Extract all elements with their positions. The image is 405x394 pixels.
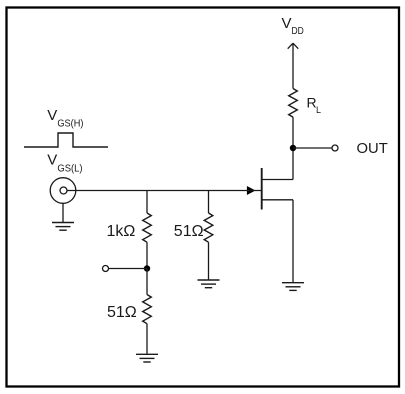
wire node A to 51 lower bbox=[146, 269, 148, 295]
svg-text:GS(H): GS(H) bbox=[57, 117, 83, 129]
wire node to OUT terminal bbox=[293, 147, 332, 149]
wire 51 upper to ground bbox=[208, 242, 210, 280]
wire gate bus bbox=[67, 190, 262, 192]
resistor R3 51 lower bbox=[143, 295, 152, 324]
svg-text:OUT: OUT bbox=[357, 141, 388, 157]
ground (generator) bbox=[52, 223, 74, 231]
transistor Q1 bbox=[247, 168, 293, 210]
svg-text:L: L bbox=[316, 105, 321, 115]
wire 51 lower to ground bbox=[146, 324, 148, 355]
resistor RL bbox=[289, 89, 298, 118]
label VDD bbox=[282, 15, 305, 37]
wire junction to 1k resistor bbox=[146, 191, 148, 214]
svg-text:GS(L): GS(L) bbox=[57, 163, 82, 175]
wire 1k to node A bbox=[146, 242, 148, 268]
label VGS(H) bbox=[47, 107, 83, 129]
wire VDD to RL bbox=[292, 43, 294, 88]
wire RL to drain bbox=[292, 117, 294, 179]
label RL bbox=[307, 94, 322, 115]
node A junction bbox=[144, 265, 150, 271]
resistor R2 1k bbox=[143, 213, 152, 242]
svg-text:1kΩ: 1kΩ bbox=[107, 223, 136, 240]
ground (51 upper) bbox=[198, 280, 220, 288]
wire source to ground bbox=[292, 200, 294, 283]
svg-text:V: V bbox=[47, 151, 57, 168]
resistor R4 51 upper bbox=[204, 213, 213, 242]
ground (transistor source) bbox=[282, 283, 304, 291]
svg-text:DD: DD bbox=[292, 25, 305, 37]
wire terminal to node A bbox=[109, 268, 148, 270]
ground (51 lower) bbox=[136, 354, 158, 362]
waveform pulse bbox=[24, 133, 108, 147]
svg-text:V: V bbox=[47, 107, 57, 124]
wire generator to ground bbox=[62, 203, 64, 222]
source generator (BNC) bbox=[50, 178, 76, 204]
node drain/OUT junction bbox=[290, 145, 296, 151]
svg-text:51Ω: 51Ω bbox=[174, 223, 204, 240]
power VDD arrow bbox=[288, 43, 299, 49]
svg-text:V: V bbox=[282, 15, 292, 32]
svg-text:51Ω: 51Ω bbox=[107, 304, 137, 321]
terminal OUT bbox=[332, 145, 338, 151]
terminal input (open) bbox=[103, 266, 109, 272]
label VGS(L) bbox=[47, 151, 82, 174]
wire junction to 51 upper bbox=[208, 191, 210, 214]
